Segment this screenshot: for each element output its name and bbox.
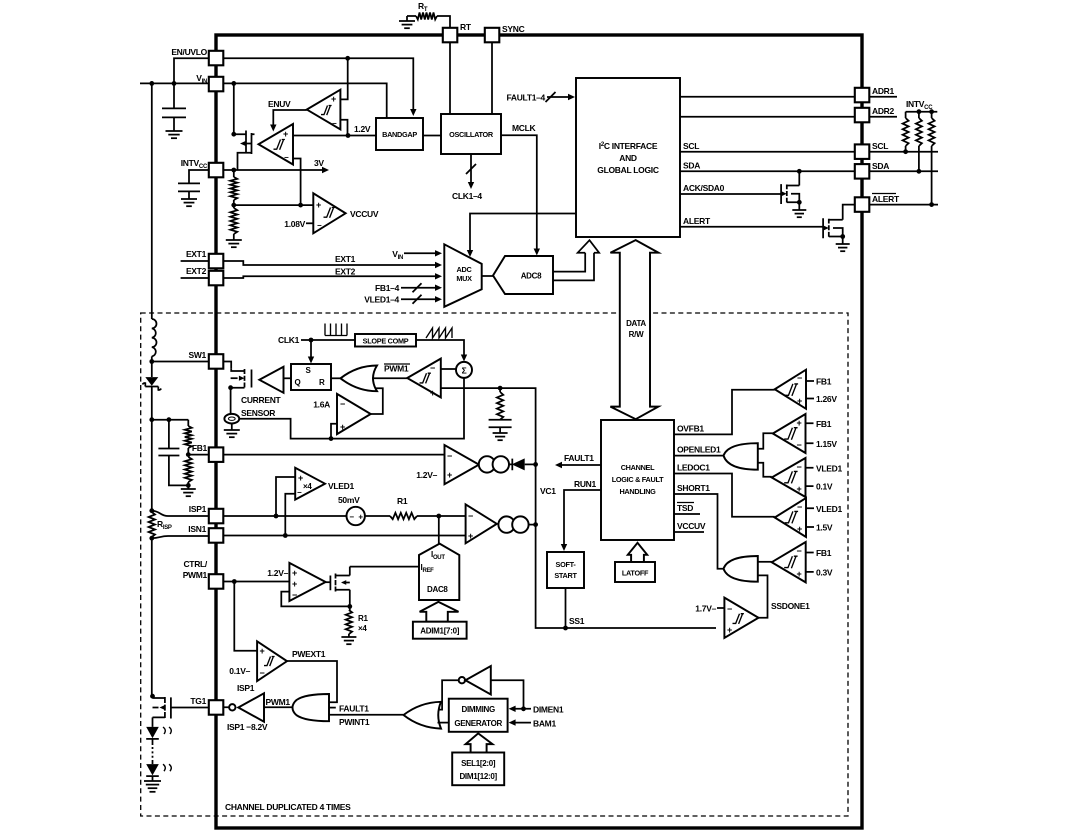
svg-text:CTRL/: CTRL/	[183, 559, 207, 569]
wire ENUV plus input	[340, 58, 347, 99]
node VC1 ea2 junction	[533, 522, 538, 527]
pin VIN	[209, 77, 224, 92]
transistor N1 ack pulldown	[781, 184, 799, 204]
pin EXT1 stub	[181, 260, 209, 262]
node DIMEN junction	[521, 706, 526, 711]
ground FB divider ground	[187, 485, 189, 489]
svg-text:1.2V–: 1.2V–	[267, 568, 288, 578]
svg-text:−: −	[797, 373, 802, 383]
gate AND short	[724, 556, 758, 582]
svg-text:SHORT1: SHORT1	[677, 483, 710, 493]
wire 1.2V reference line	[293, 135, 376, 137]
wire FB1 tap to pin	[188, 454, 209, 456]
svg-text:+: +	[797, 418, 802, 428]
svg-text:−: −	[430, 363, 435, 373]
wire ISN1 line	[223, 535, 466, 537]
pin SYNC	[485, 28, 500, 43]
svg-text:+: +	[797, 569, 802, 579]
wire TG1 pin to gate bar	[171, 706, 229, 708]
svg-text:DIMMING: DIMMING	[461, 705, 495, 714]
node N1 drain junction	[797, 169, 802, 174]
svg-text:DIM1[12:0]: DIM1[12:0]	[459, 772, 497, 781]
gate OR dimming mirrored	[404, 702, 442, 729]
svg-text:SCL: SCL	[872, 141, 888, 151]
svg-text:FAULT1–4: FAULT1–4	[506, 93, 545, 103]
wire 1.6A plus input	[331, 424, 337, 439]
svg-text:CLK1–4: CLK1–4	[452, 191, 482, 201]
node TG source junction	[150, 694, 155, 699]
wire latch Q to driver	[284, 377, 292, 379]
wire sigma to minus	[441, 368, 456, 370]
wire VIN to bandgap	[223, 83, 387, 118]
block SEL1 DIM1	[452, 753, 504, 786]
wire VC line from plus input	[441, 388, 716, 628]
svg-text:FAULT1: FAULT1	[564, 453, 594, 463]
op-amp C3 vled 0.1	[772, 458, 806, 497]
svg-text:−: −	[292, 590, 297, 600]
current source EA1 output	[479, 456, 495, 472]
svg-text:1.15V: 1.15V	[816, 439, 837, 449]
wire SCL pullup line	[869, 151, 938, 153]
wire RUN1	[564, 490, 601, 546]
block DAC8	[419, 544, 459, 600]
block DIMMING GENERATOR	[449, 699, 508, 732]
svg-text:+: +	[331, 94, 336, 104]
wire N1 drain	[798, 171, 800, 185]
wire EXT2 mux	[223, 276, 437, 278]
wire gate1 top input jog	[758, 433, 773, 448]
svg-text:OPENLED1: OPENLED1	[677, 445, 721, 455]
svg-text:+: +	[316, 200, 321, 210]
wire SS1	[565, 588, 567, 628]
wire ISP1 hookup	[152, 511, 209, 516]
arrow DATA RW double	[610, 240, 658, 419]
wire gate1 bottom input jog	[758, 463, 772, 477]
svg-text:+: +	[468, 531, 473, 541]
svg-text:ISP1: ISP1	[237, 683, 255, 693]
wire mux to adc8	[482, 275, 493, 277]
node CLK1 junction	[309, 338, 314, 343]
svg-text:BAM1: BAM1	[533, 718, 556, 728]
bus slash CLK1-4	[466, 164, 476, 174]
node RISP bottom	[149, 536, 154, 541]
wire INTVCC left cap hookup	[189, 170, 209, 183]
svg-text:HANDLING: HANDLING	[619, 487, 656, 496]
node FB divider bottom	[186, 483, 191, 488]
svg-text:GLOBAL LOGIC: GLOBAL LOGIC	[597, 165, 659, 175]
ground RT ground	[399, 20, 415, 22]
wire IREF input	[350, 566, 419, 568]
capacitor comp C	[489, 419, 512, 421]
wire TG drain to LED	[152, 717, 154, 727]
wire SDA pullup line	[869, 170, 938, 172]
block ADC8	[493, 256, 553, 294]
svg-text:+: +	[358, 513, 363, 522]
wire EN/UVLO to bandgap	[223, 58, 413, 112]
wire C4 inputs	[806, 508, 814, 527]
svg-text:RUN1: RUN1	[574, 479, 597, 489]
op-amp PWM comparator	[407, 359, 441, 398]
wire OPENLED1	[674, 455, 723, 457]
ground N1 ground	[798, 202, 800, 210]
wire FAULT1 out	[560, 464, 601, 466]
wire rail down to TG fet	[151, 538, 153, 696]
wire ctrl feedback	[281, 592, 350, 607]
wire EN/UVLO left jog	[174, 58, 209, 83]
svg-text:PWM1: PWM1	[384, 364, 409, 374]
svg-text:BANDGAP: BANDGAP	[382, 130, 417, 139]
svg-text:EXT1: EXT1	[186, 249, 207, 259]
svg-text:OVFB1: OVFB1	[677, 424, 704, 434]
wire slope comp to sigma	[416, 340, 464, 357]
svg-text:VC1: VC1	[540, 486, 556, 496]
wire ENUV output	[273, 110, 307, 127]
wire x4 plus input	[276, 477, 295, 516]
svg-text:1.5V: 1.5V	[816, 523, 833, 533]
wire 1.6A output to OR	[371, 388, 383, 414]
svg-text:0.1V–: 0.1V–	[229, 666, 250, 676]
svg-text:MCLK: MCLK	[512, 123, 537, 133]
svg-text:ISP1 −8.2V: ISP1 −8.2V	[227, 722, 268, 732]
wire LEDOC1	[674, 474, 775, 517]
wire SYNC pin down to oscillator	[491, 42, 493, 114]
node VIN-rail junction	[149, 81, 154, 86]
svg-text:VCCUV: VCCUV	[677, 521, 706, 531]
summer sigma	[456, 362, 472, 378]
wire INTVCC pullup rail	[906, 111, 938, 113]
node 1.2V junction	[346, 133, 351, 138]
latch SR flip-flop	[291, 364, 331, 390]
op-amp VIN monitor comparator	[259, 124, 294, 165]
wire EA2 to VC1	[529, 524, 536, 526]
svg-text:SDA: SDA	[683, 161, 700, 171]
svg-text:×4: ×4	[303, 482, 312, 491]
svg-text:SYNC: SYNC	[502, 24, 525, 34]
op-amp SSDONE comparator	[724, 598, 758, 638]
pin ISP1	[209, 509, 224, 524]
resistor FB bottom	[185, 457, 192, 482]
svg-text:0.1V: 0.1V	[816, 482, 833, 492]
node ENUV branch	[345, 56, 350, 61]
wire C2 inputs	[806, 423, 814, 443]
wire C1 inputs	[806, 381, 814, 399]
wire bandgap to oscillator	[423, 135, 441, 137]
wire SDA line	[680, 170, 854, 172]
pin RT	[443, 28, 458, 43]
resistor R1x4	[349, 606, 351, 610]
pin ADR1	[855, 88, 870, 103]
wire BAM1	[512, 722, 531, 724]
arrow SEL to dimming	[466, 733, 493, 752]
dashed channel box	[141, 313, 848, 816]
pin SDA	[855, 164, 870, 179]
svg-text:ISN1: ISN1	[188, 524, 206, 534]
wire N2 drain to ALERT pin	[843, 205, 854, 220]
wire SW1 to drain	[223, 362, 231, 369]
wire DIMEN1	[512, 708, 531, 710]
wire ALERT line	[680, 226, 823, 228]
ground comp RC ground	[493, 432, 508, 434]
svg-text:GENERATOR: GENERATOR	[454, 719, 502, 728]
ground current sensor ground	[231, 424, 233, 431]
svg-text:VLED1: VLED1	[816, 463, 842, 473]
svg-text:−: −	[797, 546, 802, 556]
svg-text:AND: AND	[619, 153, 637, 163]
svg-text:DATA: DATA	[626, 319, 646, 328]
node SS1 junction	[563, 626, 568, 631]
wire SCL line	[680, 151, 854, 153]
pin ALERT	[855, 197, 870, 212]
wire I2C to mux strobe	[470, 214, 576, 253]
resistor pullup SCL	[905, 112, 907, 118]
wire FB branch	[152, 419, 189, 421]
block SOFT-START	[547, 552, 584, 588]
op-amp C4 vled 1.5	[775, 498, 806, 537]
resistor RT external	[407, 15, 416, 17]
svg-text:−: −	[317, 221, 322, 230]
svg-text:R: R	[319, 378, 325, 387]
svg-text:VCCUV: VCCUV	[350, 209, 379, 219]
ground divider ground	[226, 239, 242, 241]
block LATOFF	[615, 562, 655, 582]
node source feedback junction	[347, 604, 352, 609]
op-amp PWEXT comparator	[257, 641, 287, 681]
svg-text:CHANNEL DUPLICATED 4 TIMES: CHANNEL DUPLICATED 4 TIMES	[225, 802, 351, 812]
wire OR bottom input	[438, 722, 449, 724]
svg-text:−: −	[468, 511, 473, 521]
resistor pullup ALERT	[931, 112, 933, 118]
arrow ADC8 to I2C bus	[553, 240, 599, 280]
wire FAULT1 stub	[329, 707, 336, 709]
pin ADR2	[855, 108, 870, 123]
pin EN/UVLO	[209, 51, 224, 66]
wire PWM1 gate wire	[264, 706, 295, 708]
wire VIN input rail	[140, 82, 209, 84]
svg-text:+: +	[283, 129, 288, 139]
svg-text:ADIM1[7:0]: ADIM1[7:0]	[420, 627, 459, 636]
svg-text:TG1: TG1	[190, 696, 206, 706]
svg-text:R1: R1	[358, 614, 368, 623]
svg-text:EN/UVLO: EN/UVLO	[171, 47, 207, 57]
svg-text:−: −	[797, 462, 802, 472]
wire ENUV minus jog	[340, 120, 347, 136]
block CHANNEL LOGIC	[601, 420, 674, 540]
pin SW1	[209, 354, 224, 369]
mux ADC MUX	[444, 244, 481, 306]
svg-text:SW1: SW1	[188, 350, 206, 360]
svg-text:1.08V: 1.08V	[284, 219, 305, 229]
svg-text:I2C INTERFACE: I2C INTERFACE	[599, 141, 658, 151]
svg-text:ALERT: ALERT	[683, 216, 711, 226]
svg-text:SLOPE COMP: SLOPE COMP	[363, 337, 409, 346]
buffer TG level shifter	[229, 704, 235, 710]
svg-text:−: −	[332, 119, 337, 128]
ground N2 ground	[842, 237, 844, 245]
node N1 source junction	[797, 200, 802, 205]
wire RT pin down to oscillator	[449, 42, 451, 114]
svg-text:ALERT: ALERT	[872, 194, 900, 204]
svg-text:FB1: FB1	[192, 443, 208, 453]
svg-text:SEL1[2:0]: SEL1[2:0]	[461, 759, 496, 768]
svg-text:Σ: Σ	[462, 366, 467, 376]
svg-text:+: +	[430, 388, 435, 398]
wire FAULT1-4	[547, 96, 570, 98]
wire current sense signal	[239, 378, 464, 438]
node Iout junction	[436, 514, 441, 519]
capacitor VIN input cap	[173, 83, 175, 108]
wire ISN1 hookup	[152, 536, 209, 538]
svg-text:DIMEN1: DIMEN1	[533, 705, 564, 715]
wire FB1 to error amp	[223, 454, 445, 456]
ground LED string ground	[152, 776, 154, 781]
op-amp EA1 error amp	[445, 445, 480, 484]
ground INTVCC cap ground	[181, 198, 197, 200]
svg-text:VLED1: VLED1	[816, 504, 842, 514]
svg-text:1.6A: 1.6A	[313, 400, 330, 410]
resistor comp R	[499, 388, 501, 392]
wire 1.08V stub	[306, 222, 313, 224]
svg-text:EXT2: EXT2	[335, 267, 356, 277]
node pmos source	[231, 132, 236, 137]
svg-text:EXT1: EXT1	[335, 254, 356, 264]
wire x4 minus input	[285, 494, 295, 536]
node FB cap branch	[167, 417, 172, 422]
clock comb symbol	[325, 324, 347, 336]
wire latch R to OR tip	[331, 377, 341, 379]
resistor pullup SDA	[918, 112, 920, 118]
node RISP top	[149, 508, 154, 513]
node x4 minus tap	[283, 533, 288, 538]
svg-text:CURRENT: CURRENT	[241, 395, 282, 405]
arrow LATOFF to logic	[628, 543, 647, 562]
wire OVFB1	[674, 390, 775, 435]
svg-text:0.3V: 0.3V	[816, 567, 833, 577]
svg-text:SCL: SCL	[683, 141, 699, 151]
node source junction	[228, 385, 233, 390]
op-amp x4 VLED sense	[295, 468, 325, 500]
block BANDGAP	[376, 118, 423, 150]
svg-text:ISP1: ISP1	[189, 504, 207, 514]
op-amp C2 fb 1.15	[773, 414, 806, 453]
current sensor symbol	[224, 414, 239, 424]
svg-text:+: +	[447, 470, 452, 480]
svg-text:PWINT1: PWINT1	[339, 717, 370, 727]
block ADIM1	[413, 622, 467, 639]
svg-text:SENSOR: SENSOR	[241, 408, 275, 418]
node CTRL junction	[232, 579, 237, 584]
op-amp VCCUV comparator	[313, 193, 345, 233]
ground R1x4 ground	[341, 636, 356, 638]
svg-text:SDA: SDA	[872, 161, 889, 171]
inverter DIMEN	[459, 677, 465, 683]
gate AND pwm mirrored	[293, 694, 330, 721]
svg-text:50mV: 50mV	[338, 495, 360, 505]
svg-text:+: +	[797, 484, 802, 494]
block I2C interface	[576, 78, 680, 237]
svg-text:1.2V–: 1.2V–	[416, 470, 437, 480]
svg-text:ADR2: ADR2	[872, 106, 895, 116]
svg-text:ADR1: ADR1	[872, 86, 895, 96]
wire CLK1 to latch S	[310, 340, 312, 359]
buffer gate driver	[259, 367, 283, 393]
block SLOPE COMP	[355, 334, 416, 347]
resistor VCCUV divider bottom	[233, 205, 235, 208]
pin CTRL	[209, 574, 224, 589]
svg-text:PWM1: PWM1	[183, 570, 208, 580]
svg-text:DAC8: DAC8	[427, 585, 448, 594]
op-amp EA2 current amp	[466, 504, 497, 543]
LED D2	[146, 727, 159, 738]
svg-text:FB1: FB1	[816, 548, 832, 558]
svg-text:OSCILLATOR: OSCILLATOR	[449, 130, 494, 139]
arrow ADIM to DAC8	[420, 602, 459, 622]
svg-text:START: START	[554, 571, 577, 580]
svg-text:1.26V: 1.26V	[816, 394, 837, 404]
svg-text:LATOFF: LATOFF	[622, 569, 649, 578]
sawtooth symbol	[426, 328, 452, 338]
wire INTVCC internal 3V line	[223, 169, 325, 171]
svg-text:ADC8: ADC8	[521, 272, 542, 281]
chip outline border	[216, 35, 862, 828]
wire Iout to summing node	[438, 516, 440, 544]
capacitor FB network cap	[168, 420, 170, 449]
wire MCLK	[501, 135, 537, 251]
svg-text:Q: Q	[295, 378, 301, 387]
svg-text:ADC: ADC	[457, 265, 473, 274]
gate AND openled	[724, 443, 758, 470]
svg-text:CHANNEL: CHANNEL	[621, 463, 655, 472]
node INTVCC junction	[231, 168, 236, 173]
svg-text:−: −	[797, 440, 802, 450]
svg-text:+: +	[260, 646, 265, 656]
node FB1 tap	[186, 452, 191, 457]
svg-text:3V: 3V	[314, 158, 324, 168]
svg-text:LOGIC & FAULT: LOGIC & FAULT	[612, 475, 664, 484]
svg-text:−: −	[297, 488, 302, 497]
svg-text:ACK/SDA0: ACK/SDA0	[683, 183, 725, 193]
pin EXT2	[209, 271, 224, 286]
wire output rail down	[151, 387, 153, 511]
svg-text:−: −	[447, 451, 452, 461]
svg-text:−: −	[797, 502, 802, 512]
diode D1 schottky	[145, 377, 158, 386]
wire ALERT pullup line	[869, 204, 938, 206]
svg-text:−: −	[727, 604, 732, 614]
node FB divider branch	[149, 417, 154, 422]
wire SHORT1	[674, 494, 724, 569]
node sense 1.6A junction	[329, 436, 334, 441]
wire ADR2 line	[680, 116, 855, 118]
wire PWM comparator output	[372, 377, 407, 379]
wire PWEXT1 to gate	[287, 661, 337, 702]
pin TG1	[209, 700, 224, 715]
wire 50mV to R1	[365, 515, 390, 517]
transistor Q-intvcc pmos pass	[234, 131, 255, 171]
op-amp C1 ovfb comparator	[775, 370, 806, 409]
svg-text:CLK1: CLK1	[278, 335, 300, 345]
svg-text:1.7V–: 1.7V–	[695, 604, 716, 614]
svg-text:SOFT-: SOFT-	[556, 560, 577, 569]
wire EXT1 mux	[223, 261, 437, 265]
resistor R1 sense	[390, 513, 417, 519]
transistor TG pmos	[153, 697, 171, 719]
wire LED string dotted	[152, 739, 154, 745]
op-amp C5 fb 0.3	[772, 542, 806, 582]
op-amp 1.6A comparator	[337, 394, 371, 434]
svg-text:FB1: FB1	[816, 419, 832, 429]
pin SCL	[855, 144, 870, 159]
ground VIN cap ground	[166, 130, 183, 132]
